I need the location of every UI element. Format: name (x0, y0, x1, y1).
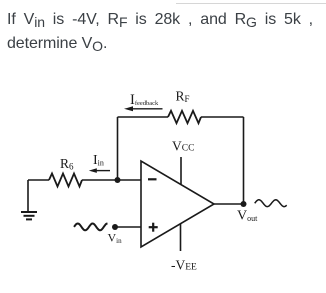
current arrow Ifeedback (124, 106, 163, 111)
svg-text:RF: RF (176, 89, 190, 105)
wire feedback right vertical (243, 117, 245, 204)
minus sign inverting input (148, 178, 157, 180)
node B junction dot (non-inverting input) (112, 224, 118, 230)
wire ground to RG (28, 179, 49, 181)
question text (7, 8, 313, 56)
current arrow Iin (89, 168, 110, 173)
Vcc supply wire (180, 157, 182, 184)
Vout squiggle (255, 200, 287, 207)
svg-text:Vout: Vout (237, 209, 258, 224)
node Vout junction dot (241, 201, 247, 207)
resistor RG zigzag (49, 174, 82, 187)
svg-text:R6: R6 (60, 156, 74, 172)
plus sign non-inverting input (149, 223, 158, 232)
wire feedback left vertical (117, 117, 119, 180)
resistor RF zigzag (168, 111, 201, 123)
wire RG to inverting node (82, 179, 141, 181)
svg-text:Ifeedback: Ifeedback (130, 92, 159, 108)
-Vee supply wire (180, 224, 182, 251)
wire non-inverting input (115, 226, 141, 228)
wire feedback top left segment (118, 116, 169, 118)
svg-text:Vin: Vin (108, 231, 123, 246)
ground (21, 180, 37, 219)
node A junction dot (inverting input) (115, 177, 121, 183)
op-amp U1 triangle (141, 161, 214, 247)
svg-text:VCC: VCC (172, 139, 194, 154)
Vin source squiggle (74, 224, 108, 231)
wire feedback top right segment (201, 116, 244, 118)
output wire (214, 203, 244, 205)
svg-text:-VEE: -VEE (171, 258, 197, 273)
divider line top right (176, 3, 326, 4)
svg-text:Iin: Iin (93, 153, 104, 168)
